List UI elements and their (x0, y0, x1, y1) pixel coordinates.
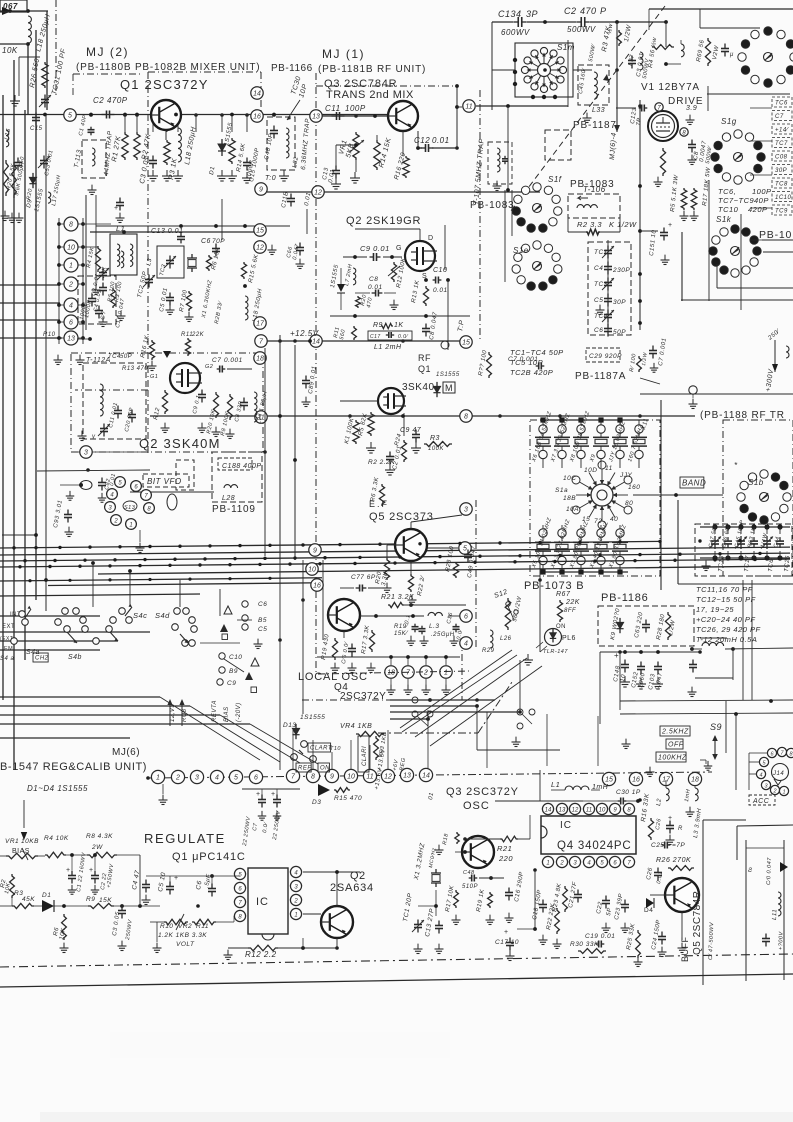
svg-text:S4 a: S4 a (0, 656, 15, 662)
svg-text:G1: G1 (150, 374, 158, 380)
svg-text:VR2: VR2 (178, 923, 192, 930)
svg-text:D: D (428, 235, 434, 242)
svg-text:PB-1166: PB-1166 (271, 63, 313, 74)
svg-text:IC: IC (256, 896, 269, 908)
svg-text:S13: S13 (124, 505, 136, 511)
svg-text:11: 11 (366, 774, 373, 781)
svg-text:γ: γ (92, 434, 96, 440)
svg-text:(PB-1188 RF TR: (PB-1188 RF TR (700, 410, 785, 421)
svg-text:8: 8 (464, 414, 468, 421)
svg-text:C5: C5 (594, 297, 603, 304)
svg-text:C6: C6 (201, 238, 211, 245)
svg-text:3: 3 (195, 775, 199, 782)
svg-text:S1g: S1g (721, 117, 737, 126)
svg-text:16: 16 (253, 114, 261, 121)
svg-text:1: 1 (294, 913, 297, 919)
svg-text:+C20~24 40 PF: +C20~24 40 PF (696, 615, 755, 624)
svg-text:067: 067 (3, 2, 18, 11)
svg-text:R10: R10 (160, 923, 173, 930)
svg-text:K 1/2W: K 1/2W (609, 220, 637, 229)
svg-text:14: 14 (312, 339, 320, 346)
svg-text:CLARI: CLARI (362, 746, 368, 766)
svg-text:MJ (2): MJ (2) (86, 45, 129, 59)
svg-text:14: 14 (545, 808, 552, 814)
svg-text:230P: 230P (612, 267, 630, 274)
svg-text:BAND: BAND (682, 479, 706, 488)
svg-text:13: 13 (67, 336, 75, 343)
svg-text:+: + (504, 929, 509, 936)
svg-text:1S1555: 1S1555 (436, 372, 460, 378)
svg-text:2: 2 (423, 670, 428, 677)
svg-text:1: 1 (444, 670, 448, 677)
svg-text:4: 4 (759, 773, 762, 779)
svg-text:160: 160 (628, 484, 640, 491)
svg-text:TC7~TC9: TC7~TC9 (718, 196, 755, 205)
svg-text:VR4 1KB: VR4 1KB (340, 723, 372, 730)
svg-text:100P: 100P (752, 187, 772, 196)
svg-text:(PB-1181B RF UNIT): (PB-1181B RF UNIT) (318, 64, 426, 75)
svg-text:18: 18 (256, 356, 264, 363)
svg-text:R2 3.3: R2 3.3 (577, 220, 602, 229)
svg-text:MJ(6): MJ(6) (112, 747, 140, 758)
svg-text:PB-1073 B: PB-1073 B (524, 580, 584, 592)
svg-text:R4 10K: R4 10K (44, 835, 69, 842)
svg-text:12: 12 (572, 808, 579, 814)
svg-text:2.5KHZ: 2.5KHZ (661, 729, 689, 736)
svg-text:LOCAL OSC: LOCAL OSC (298, 671, 368, 683)
svg-text:TC26, 29 420 PF: TC26, 29 420 PF (696, 625, 761, 634)
svg-text:S4d: S4d (155, 611, 170, 620)
svg-text:13: 13 (559, 808, 566, 814)
svg-text:+: + (114, 205, 119, 212)
svg-text:OFF: OFF (668, 742, 684, 749)
svg-text:B5: B5 (258, 617, 267, 624)
svg-text:2: 2 (113, 519, 118, 525)
svg-text:C6: C6 (594, 327, 603, 334)
svg-text:C7: C7 (252, 822, 259, 831)
svg-text:420P: 420P (748, 205, 768, 214)
svg-text:15: 15 (605, 777, 613, 784)
svg-text:G2: G2 (205, 364, 213, 370)
svg-text:80: 80 (625, 500, 633, 507)
svg-text:M: M (445, 383, 453, 393)
svg-text:10: 10 (67, 245, 75, 252)
svg-text:TC2B 420P: TC2B 420P (510, 368, 553, 377)
svg-text:10: 10 (347, 774, 355, 781)
svg-text:CH2: CH2 (35, 656, 49, 662)
svg-text:R30 33K: R30 33K (570, 941, 599, 948)
svg-text:V1 12BY7A: V1 12BY7A (641, 82, 700, 93)
svg-text:R10: R10 (43, 332, 56, 338)
svg-text:R8 4.3K: R8 4.3K (86, 833, 113, 840)
svg-text:22K: 22K (191, 332, 205, 338)
svg-text:1S1555: 1S1555 (300, 714, 325, 721)
svg-text:S4b: S4b (68, 654, 82, 661)
svg-text:TC9: TC9 (775, 209, 788, 215)
svg-text:10A: 10A (566, 506, 579, 513)
svg-text:5: 5 (463, 546, 467, 553)
svg-text:D3: D3 (312, 799, 321, 806)
svg-text:TC7: TC7 (775, 141, 788, 147)
svg-text:C19 0.01: C19 0.01 (585, 933, 615, 940)
svg-text:D4: D4 (644, 907, 653, 914)
svg-text:L.3: L.3 (429, 623, 440, 630)
svg-text:μ: μ (729, 52, 734, 58)
svg-text:R26 270K: R26 270K (656, 857, 691, 864)
svg-text:R: R (678, 826, 683, 832)
svg-text:TC6,: TC6, (718, 187, 736, 196)
svg-text:12,V3: 12,V3 (170, 704, 176, 722)
svg-text:4: 4 (215, 775, 219, 782)
svg-text:T-106: T-106 (583, 185, 606, 194)
svg-text:C29 920P: C29 920P (589, 353, 622, 360)
svg-text:R13 470: R13 470 (122, 366, 148, 372)
svg-text:+14⁄: +14⁄ (775, 128, 790, 134)
svg-text:L1: L1 (116, 224, 125, 233)
svg-text:1C10: 1C10 (775, 195, 792, 201)
svg-text:TC6: TC6 (775, 101, 788, 107)
svg-text:17, 19~25: 17, 19~25 (696, 605, 734, 614)
svg-text:C77 6P: C77 6P (351, 574, 376, 581)
svg-text:C17: C17 (370, 334, 381, 340)
svg-text:8: 8 (69, 222, 73, 229)
svg-text:EXT: EXT (2, 624, 15, 630)
svg-text:9: 9 (330, 774, 334, 781)
svg-text:*: * (734, 461, 738, 470)
svg-text:12: 12 (384, 774, 392, 781)
svg-text:R21: R21 (497, 844, 512, 853)
svg-text:C10: C10 (229, 654, 242, 661)
svg-text:RF: RF (418, 353, 431, 363)
svg-text:S1k: S1k (716, 215, 732, 224)
svg-text:2: 2 (175, 775, 180, 782)
svg-text:G: G (396, 245, 402, 252)
svg-text:C2: C2 (564, 6, 577, 16)
svg-text:510P: 510P (462, 884, 478, 890)
svg-text:2: 2 (772, 789, 776, 795)
svg-text:PB-1083: PB-1083 (470, 200, 515, 211)
svg-text:L2: L2 (656, 798, 663, 807)
svg-text:40: 40 (610, 516, 618, 523)
svg-text:B-1547 REG&CALIB UNIT): B-1547 REG&CALIB UNIT) (0, 761, 147, 773)
svg-text:TRANS 2nd MIX: TRANS 2nd MIX (326, 89, 414, 101)
svg-text:PB-1187A: PB-1187A (575, 371, 626, 382)
svg-text:TC8: TC8 (775, 182, 788, 188)
svg-text:L1: L1 (551, 780, 560, 789)
svg-text:40P: 40P (754, 196, 769, 205)
svg-text:C9 47: C9 47 (400, 427, 422, 434)
svg-text:220: 220 (498, 854, 513, 863)
svg-text:TLR-147: TLR-147 (543, 649, 568, 655)
svg-text:=7P: =7P (672, 842, 685, 849)
svg-text:0.0⁄: 0.0⁄ (398, 334, 408, 340)
svg-text:Q5 2SC373: Q5 2SC373 (369, 511, 434, 523)
svg-text:14: 14 (253, 91, 261, 98)
svg-text:6: 6 (69, 320, 73, 327)
svg-text:TC12~15 50 PF: TC12~15 50 PF (696, 595, 756, 604)
svg-text:PB-1187: PB-1187 (573, 120, 617, 131)
svg-text:½w: ½w (606, 23, 614, 34)
svg-text:T10: T10 (330, 746, 341, 752)
svg-text:+: + (614, 651, 619, 660)
svg-text:2: 2 (68, 282, 73, 289)
svg-text:MJ (1): MJ (1) (322, 47, 365, 61)
svg-text:0.01: 0.01 (433, 287, 448, 294)
svg-text:L11: L11 (772, 909, 778, 920)
svg-text:18: 18 (691, 777, 699, 784)
svg-text:C7: C7 (775, 114, 784, 120)
svg-text:11: 11 (605, 465, 613, 472)
svg-text:ON: ON (320, 766, 330, 772)
svg-text:15: 15 (256, 228, 264, 235)
svg-text:C9 0.01: C9 0.01 (360, 244, 390, 253)
svg-text:J14: J14 (772, 771, 784, 777)
svg-text:R19⁄: R19⁄ (394, 624, 410, 630)
svg-text:12: 12 (314, 190, 322, 197)
svg-text:Q1 2SC372Y: Q1 2SC372Y (120, 77, 209, 92)
svg-text:EM: EM (4, 646, 13, 652)
svg-text:+12.5V: +12.5V (290, 329, 319, 338)
svg-text:C6: C6 (258, 601, 267, 608)
svg-text:11: 11 (586, 808, 592, 814)
svg-text:2: 2 (293, 899, 298, 905)
svg-text:9: 9 (313, 548, 317, 555)
svg-text:70P: 70P (212, 238, 225, 245)
svg-text:R11: R11 (196, 923, 209, 930)
svg-text:PB-1186: PB-1186 (601, 592, 649, 604)
svg-text:C8: C8 (369, 276, 378, 283)
svg-text:+: + (271, 791, 276, 798)
svg-text:12: 12 (256, 245, 264, 252)
svg-text:S1b: S1b (748, 478, 764, 487)
svg-text:TC3: TC3 (594, 281, 608, 288)
svg-text:D1: D1 (42, 892, 51, 899)
svg-text:10: 10 (599, 808, 606, 814)
svg-text:ACC: ACC (752, 798, 770, 805)
svg-text:4: 4 (69, 303, 73, 310)
svg-text:3P: 3P (526, 9, 538, 19)
svg-text:Q3 2SC372Y: Q3 2SC372Y (446, 786, 519, 798)
svg-text:C7 0.001: C7 0.001 (508, 356, 538, 363)
svg-text:.25GμH: .25GμH (431, 632, 455, 638)
svg-text:RU8: RU8 (182, 708, 188, 722)
svg-text:18B: 18B (563, 495, 576, 502)
svg-text:R29: R29 (482, 648, 495, 654)
svg-text:PB-1109: PB-1109 (212, 504, 256, 515)
svg-text:BUFF: BUFF (680, 937, 690, 963)
svg-text:3.9: 3.9 (686, 105, 697, 112)
svg-text:1: 1 (782, 790, 785, 796)
svg-text:100K: 100K (428, 446, 445, 452)
svg-text:OSC: OSC (463, 800, 490, 812)
svg-text:500WV: 500WV (567, 25, 596, 34)
svg-text:11: 11 (465, 104, 472, 111)
svg-text:13: 13 (312, 114, 320, 121)
svg-text:L26: L26 (500, 636, 512, 642)
svg-text:S9: S9 (710, 722, 722, 732)
svg-text:1: 1 (129, 523, 132, 529)
svg-text:100KHZ: 100KHZ (658, 755, 687, 762)
svg-text:22K: 22K (565, 599, 580, 606)
svg-text:REGULATE: REGULATE (144, 831, 226, 846)
svg-text:R9: R9 (86, 896, 95, 903)
svg-text:S1m: S1m (557, 43, 575, 52)
svg-text:16: 16 (632, 777, 640, 784)
svg-text:S1f: S1f (548, 175, 562, 184)
svg-text:VOLT: VOLT (176, 941, 195, 948)
svg-text:C11: C11 (325, 104, 341, 113)
svg-text:50P: 50P (120, 354, 132, 360)
svg-text:10D: 10D (584, 467, 597, 474)
svg-text:1: 1 (69, 263, 73, 270)
svg-text:+: + (89, 867, 94, 874)
svg-text:+: + (66, 867, 71, 874)
svg-text:Q4 34024PC: Q4 34024PC (557, 840, 632, 852)
svg-text:10K: 10K (2, 46, 18, 55)
svg-text:T:0: T:0 (265, 175, 276, 182)
svg-text:72: 72 (594, 518, 602, 525)
svg-text:Q1 μPC141C: Q1 μPC141C (172, 851, 246, 863)
svg-text:(PB-1180B PB-1082B MIXER UNIT: (PB-1180B PB-1082B MIXER UNIT) (76, 62, 260, 73)
svg-text:17: 17 (256, 321, 265, 328)
svg-text:C48: C48 (463, 870, 475, 876)
svg-text:BIAS: BIAS (224, 706, 230, 722)
svg-text:30P: 30P (613, 299, 626, 306)
svg-text:L28: L28 (222, 495, 235, 502)
svg-text:100P: 100P (345, 104, 366, 113)
svg-text:600WV: 600WV (501, 28, 530, 37)
svg-text:S1a: S1a (555, 487, 568, 494)
svg-text:TC10: TC10 (718, 205, 739, 214)
svg-text:C9: C9 (227, 680, 236, 687)
svg-text:10: 10 (308, 567, 316, 574)
svg-text:R67: R67 (556, 591, 571, 598)
svg-text:4: 4 (464, 641, 468, 648)
svg-text:TC11,16 70 PF: TC11,16 70 PF (696, 585, 753, 594)
svg-text:TC1: TC1 (594, 249, 608, 256)
svg-text:10C: 10C (563, 475, 576, 482)
svg-text:C30 1P: C30 1P (616, 789, 641, 796)
svg-text:IC: IC (560, 820, 572, 831)
svg-text:5: 5 (68, 113, 72, 120)
svg-text:Q5 2SC784R: Q5 2SC784R (692, 891, 703, 955)
svg-text:Q2 2SK19GR: Q2 2SK19GR (346, 215, 421, 227)
svg-text:13: 13 (403, 773, 411, 780)
svg-text:15K: 15K (99, 897, 112, 904)
svg-text:PB-10: PB-10 (759, 229, 792, 241)
svg-text:1K: 1K (394, 322, 404, 329)
svg-text:D1~D4 1S1555: D1~D4 1S1555 (27, 784, 88, 793)
svg-text:R3: R3 (430, 435, 440, 442)
svg-text:Q1: Q1 (418, 364, 431, 374)
svg-text:Ƨ: Ƨ (748, 868, 753, 874)
svg-text:17: 17 (662, 777, 671, 784)
svg-text:S4c: S4c (133, 611, 147, 620)
svg-text:C5: C5 (258, 626, 267, 633)
svg-text:+: + (668, 222, 673, 229)
svg-text:1: 1 (546, 861, 549, 867)
svg-text:(-20V): (-20V) (236, 702, 242, 722)
svg-text:REVTA: REVTA (212, 700, 218, 722)
svg-text:C08: C08 (775, 155, 788, 161)
svg-text:+: + (256, 791, 261, 798)
svg-text:14: 14 (422, 773, 430, 780)
svg-text:C13 0.01: C13 0.01 (151, 228, 183, 235)
svg-text:9: 9 (259, 187, 263, 194)
svg-text:2SC372Y: 2SC372Y (340, 691, 386, 702)
svg-text:8: 8 (789, 752, 793, 758)
svg-text:0.01: 0.01 (432, 136, 450, 145)
svg-text:L1 2mH: L1 2mH (374, 344, 402, 351)
svg-text:8: 8 (311, 774, 315, 781)
svg-text:REF: REF (298, 766, 312, 772)
svg-text:L33: L33 (592, 107, 605, 114)
svg-text:C2 470P: C2 470P (93, 96, 128, 105)
svg-text:2: 2 (559, 861, 564, 867)
svg-text:C⁄0 0.047: C⁄0 0.047 (766, 857, 773, 885)
svg-text:C12: C12 (414, 136, 430, 145)
svg-text:3: 3 (84, 450, 88, 457)
svg-text:50P: 50P (613, 329, 626, 336)
svg-text:B9: B9 (229, 668, 238, 675)
svg-text:45K: 45K (22, 896, 35, 903)
svg-text:1: 1 (156, 775, 160, 782)
svg-text:JJY: JJY (619, 472, 633, 479)
svg-text:P: P (600, 6, 607, 16)
svg-text:0.001: 0.001 (224, 357, 243, 364)
svg-text:+?00V: +?00V (778, 930, 785, 950)
svg-text:15: 15 (462, 340, 470, 347)
svg-text:8FF: 8FF (564, 608, 576, 614)
svg-text:R15 470: R15 470 (334, 795, 362, 802)
svg-text:S1e: S1e (513, 246, 529, 255)
svg-text:Q2 3SK40M: Q2 3SK40M (139, 436, 221, 451)
svg-text:2W: 2W (91, 844, 103, 851)
svg-text:16: 16 (313, 583, 321, 590)
svg-text:C188 400P: C188 400P (222, 463, 262, 470)
svg-text:C4: C4 (594, 265, 603, 272)
svg-text:3: 3 (464, 507, 468, 514)
svg-text:470: 470 (580, 6, 597, 16)
svg-text:VR1: VR1 (5, 838, 19, 845)
svg-text:C7: C7 (212, 357, 221, 364)
svg-text:3SK40: 3SK40 (402, 382, 435, 393)
svg-text:PL6: PL6 (562, 635, 576, 642)
svg-text:5: 5 (234, 775, 238, 782)
svg-text:6: 6 (464, 614, 468, 621)
svg-text:15K⁄: 15K⁄ (394, 631, 409, 637)
svg-text:30P: 30P (775, 168, 787, 174)
svg-text:1.2K 1KB 3.3K: 1.2K 1KB 3.3K (158, 932, 207, 939)
svg-text:6: 6 (254, 775, 258, 782)
svg-text:R12 2.2: R12 2.2 (245, 950, 277, 959)
